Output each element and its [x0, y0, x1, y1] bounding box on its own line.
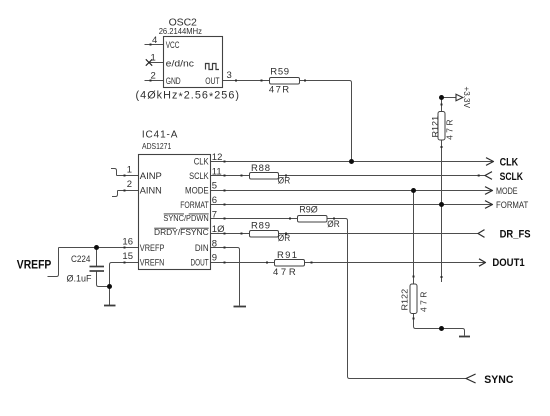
svg-text:DOUT1: DOUT1 [492, 257, 524, 269]
svg-text:5: 5 [212, 181, 217, 192]
svg-text:R91: R91 [277, 250, 297, 261]
svg-text:DIN: DIN [195, 243, 209, 254]
svg-text:6: 6 [212, 195, 217, 206]
svg-text:47R: 47R [445, 119, 455, 139]
svg-text:SYNC/PDWN: SYNC/PDWN [163, 214, 208, 223]
svg-text:DR_FS: DR_FS [500, 229, 531, 241]
svg-text:FORMAT: FORMAT [180, 200, 209, 211]
svg-text:R122: R122 [400, 289, 410, 311]
svg-text:ADS1271: ADS1271 [142, 141, 172, 151]
svg-text:2: 2 [127, 179, 132, 190]
svg-text:(4ØkHz*2.56*256): (4ØkHz*2.56*256) [136, 90, 240, 104]
svg-text:ØR: ØR [278, 175, 291, 186]
svg-text:1Ø: 1Ø [212, 224, 225, 235]
svg-text:16: 16 [122, 237, 133, 248]
svg-text:MODE: MODE [185, 186, 209, 197]
svg-text:2: 2 [151, 70, 156, 81]
svg-text:SYNC: SYNC [484, 374, 513, 386]
svg-text:7: 7 [212, 210, 217, 221]
svg-text:3: 3 [227, 70, 232, 81]
svg-text:OUT: OUT [205, 76, 220, 87]
svg-text:AINN: AINN [140, 186, 162, 197]
svg-text:AINP: AINP [140, 171, 162, 182]
svg-text:+3.3V: +3.3V [462, 87, 472, 109]
svg-text:8: 8 [212, 238, 217, 249]
svg-text:CLK: CLK [500, 157, 519, 169]
svg-text:FORMAT: FORMAT [496, 200, 528, 211]
svg-text:47R: 47R [273, 267, 296, 278]
svg-text:e/d/nc: e/d/nc [166, 59, 195, 70]
svg-text:11: 11 [212, 166, 222, 177]
svg-text:VREFP: VREFP [17, 260, 52, 272]
svg-text:26.2144MHz: 26.2144MHz [159, 26, 202, 36]
svg-text:R121: R121 [430, 116, 440, 138]
svg-text:SCLK: SCLK [189, 171, 209, 182]
svg-text:GND: GND [166, 76, 181, 87]
svg-text:ØR: ØR [327, 219, 340, 230]
svg-text:VREFN: VREFN [140, 258, 165, 269]
svg-text:ØR: ØR [278, 233, 291, 244]
svg-text:Ø.1uF: Ø.1uF [67, 274, 92, 285]
svg-text:12: 12 [212, 152, 223, 163]
svg-text:C224: C224 [71, 254, 90, 265]
svg-text:47R: 47R [419, 292, 429, 312]
svg-text:VREFP: VREFP [140, 243, 165, 254]
svg-text:R9Ø: R9Ø [299, 205, 318, 216]
svg-text:R89: R89 [251, 221, 270, 232]
svg-text:15: 15 [122, 251, 133, 262]
svg-text:CLK: CLK [194, 157, 210, 168]
svg-text:R88: R88 [251, 163, 270, 174]
svg-text:4: 4 [152, 35, 157, 46]
svg-text:SCLK: SCLK [500, 171, 523, 183]
svg-text:DRDY/FSYNC: DRDY/FSYNC [154, 228, 209, 237]
svg-text:1: 1 [151, 53, 156, 64]
svg-text:IC41-A: IC41-A [142, 129, 178, 140]
svg-text:MODE: MODE [496, 186, 518, 197]
svg-text:VCC: VCC [166, 40, 180, 51]
svg-text:R59: R59 [270, 66, 289, 77]
svg-text:9: 9 [212, 253, 217, 264]
svg-text:DOUT: DOUT [191, 258, 209, 269]
svg-text:47R: 47R [269, 84, 289, 95]
svg-text:1: 1 [127, 165, 132, 176]
